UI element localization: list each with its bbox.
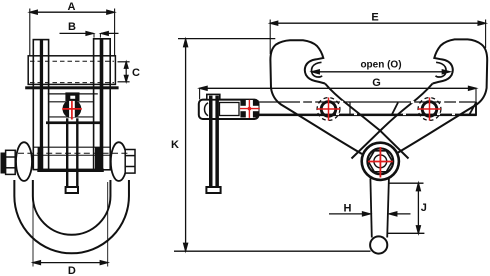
hub red crosshair xyxy=(368,147,393,178)
crossbar body xyxy=(28,56,115,85)
svg-text:C: C xyxy=(132,67,140,79)
jaw left outer profile xyxy=(270,40,362,154)
dimension J xyxy=(388,183,425,233)
svg-text:G: G xyxy=(372,77,381,89)
nut tab above circle xyxy=(65,92,79,101)
svg-text:E: E xyxy=(371,12,378,24)
jaw left inner wing edge xyxy=(325,84,409,159)
svg-text:K: K xyxy=(171,139,179,151)
spindle bottom edge notches xyxy=(336,114,455,116)
crossbar bottom flange xyxy=(25,86,118,89)
bolt end black left xyxy=(1,153,6,174)
pin top line xyxy=(33,146,110,148)
pin bottom thick band xyxy=(37,169,104,172)
shackle eye left xyxy=(16,142,32,181)
handle end arc xyxy=(205,103,209,116)
dimension A line xyxy=(30,9,115,57)
spindle wedge mid xyxy=(392,103,399,116)
spindle bar bottom thick edge xyxy=(258,114,476,117)
shackle eye right xyxy=(111,142,127,181)
svg-text:D: D xyxy=(68,265,76,276)
lower tie plate xyxy=(46,121,103,124)
jaw right outer profile xyxy=(396,39,488,154)
handle rod foot xyxy=(206,187,220,193)
rod foot xyxy=(66,187,78,193)
dimension D xyxy=(33,182,108,267)
handle hatched block xyxy=(240,100,258,118)
spindle tick xyxy=(349,102,351,116)
spindle end circle (black) xyxy=(63,100,82,119)
svg-text:H: H xyxy=(344,203,352,215)
K vertical line xyxy=(184,39,188,251)
handle rod bars xyxy=(209,96,213,187)
bottom baseline xyxy=(174,250,371,252)
svg-text:A: A xyxy=(68,1,76,13)
hex nut right xyxy=(125,150,135,174)
pivot left dashed circle xyxy=(317,98,340,121)
bow inner arc xyxy=(33,180,111,235)
upright plates left xyxy=(33,40,48,170)
dimension C xyxy=(118,62,130,82)
spindle end wedge right xyxy=(469,103,476,116)
pin line solid xyxy=(33,154,110,156)
svg-text:B: B xyxy=(68,21,76,33)
hub outer circle xyxy=(362,143,399,180)
pivot right red crosshair xyxy=(418,98,441,121)
pivot right circle xyxy=(422,102,437,117)
dimension G line xyxy=(200,86,476,101)
hub middle circle xyxy=(367,148,393,174)
pivot left circle xyxy=(321,102,336,117)
spindle top edge dash gaps xyxy=(300,101,459,103)
spindle bar top edge xyxy=(258,101,476,103)
shackle bar right view xyxy=(370,179,371,238)
open dimension arrow line xyxy=(312,70,450,74)
shackle bottom circle xyxy=(370,236,387,253)
spindle right end xyxy=(475,102,477,116)
crossbar hidden line top xyxy=(30,60,114,62)
upright boss right xyxy=(95,148,101,171)
hex nut left xyxy=(6,150,16,174)
red crosshair on circle xyxy=(62,101,82,120)
pin centreline dashed xyxy=(18,152,129,154)
handle red crosshair xyxy=(240,100,260,118)
suspension rod walls xyxy=(66,118,68,187)
crossbar hidden line bottom xyxy=(30,82,114,84)
handle top tab xyxy=(207,94,220,99)
upright boss left xyxy=(38,148,44,171)
hub hexagon xyxy=(368,151,392,172)
handle window xyxy=(220,103,240,116)
pivot right dashed circle xyxy=(418,98,441,121)
spindle lines through circle xyxy=(49,101,93,103)
svg-text:J: J xyxy=(421,202,427,214)
upright plates right xyxy=(94,39,111,170)
white slot in circle xyxy=(69,101,75,118)
jaw right lip inner curl xyxy=(436,62,447,77)
hub inner circle xyxy=(374,155,387,168)
pivot left red crosshair xyxy=(317,98,340,121)
dimension E xyxy=(270,20,485,55)
tie line below crossbar xyxy=(48,93,98,95)
bow outer arc xyxy=(14,180,129,253)
jaw right inner wing edge xyxy=(352,84,433,159)
svg-text:open (O): open (O) xyxy=(360,59,401,70)
jaw left lip inner curl xyxy=(311,62,322,77)
dimension B line xyxy=(60,32,119,38)
K top line xyxy=(178,38,275,40)
handle outer xyxy=(199,100,259,119)
